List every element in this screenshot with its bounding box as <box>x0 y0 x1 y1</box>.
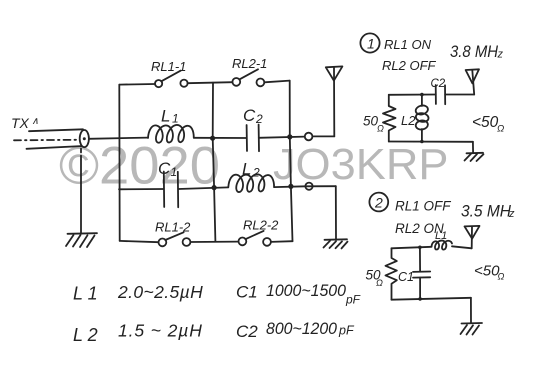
svg-text:1: 1 <box>367 35 375 51</box>
svg-text:pF: pF <box>345 293 361 307</box>
wire main bus left <box>89 138 148 139</box>
wire L2 to right <box>274 185 305 188</box>
svg-text:<50: <50 <box>474 263 500 280</box>
svg-text:L 2: L 2 <box>73 325 98 345</box>
svg-text:Ω: Ω <box>377 124 384 134</box>
inductor L2 (panel 1) <box>421 95 423 106</box>
wire lower rail seg2 <box>190 241 238 243</box>
node junction mid/main <box>210 136 215 141</box>
wire panel2 top <box>392 247 432 249</box>
wire panel2 to ground <box>470 298 472 323</box>
wire top rail seg3 <box>264 81 289 83</box>
svg-text:RL1-1: RL1-1 <box>151 59 186 74</box>
svg-text:C1: C1 <box>236 283 258 302</box>
svg-text:3.8 MH: 3.8 MH <box>450 42 499 61</box>
wire panel1 bottom <box>389 141 473 143</box>
svg-text:<50: <50 <box>472 114 499 131</box>
svg-text:z: z <box>508 208 515 220</box>
capacitor C1 <box>163 172 165 208</box>
wire top rail seg2 <box>188 82 233 83</box>
svg-text:Ω: Ω <box>498 272 505 282</box>
inductor L1 <box>148 125 194 143</box>
resistor 50 ohm (panel 2) <box>386 248 397 299</box>
node junction right/second <box>288 184 293 189</box>
svg-text:800~1200: 800~1200 <box>266 320 338 338</box>
wire lower rail seg3 <box>271 240 293 243</box>
capacitor C2 (panel 1) <box>435 85 437 104</box>
node panel2 C1 bottom <box>418 297 422 301</box>
svg-text:RL2-1: RL2-1 <box>232 56 267 71</box>
wire coax shield to ground <box>80 149 82 161</box>
antenna (panel 2) <box>465 226 480 239</box>
relay contact RL1-2 <box>159 232 191 246</box>
connector circle (antenna feed) <box>305 133 313 141</box>
node junction mid/second <box>212 185 217 190</box>
inductor L2 <box>228 174 274 192</box>
svg-text:L: L <box>242 160 251 179</box>
wire right rail <box>290 81 293 242</box>
svg-text:RL1-2: RL1-2 <box>155 220 191 235</box>
antenna (panel 1) <box>466 69 479 83</box>
node panel2 C1 top <box>418 246 422 250</box>
ground (panel 1) <box>467 152 484 155</box>
svg-text:1: 1 <box>172 112 179 126</box>
svg-text:RL2 OFF: RL2 OFF <box>382 58 437 73</box>
wire C2 to antenna node <box>259 137 305 138</box>
wire lower rail seg1 <box>120 241 159 242</box>
connector circle (second bus) <box>305 183 312 190</box>
relay contact RL2-1 <box>232 69 264 86</box>
wire second bus to ground drop <box>305 185 335 187</box>
svg-text:z: z <box>497 49 504 61</box>
node panel1 L2 bottom <box>420 140 424 144</box>
ground (coax shield) <box>68 232 98 235</box>
svg-text:3.5 MH: 3.5 MH <box>461 202 512 221</box>
svg-text:C: C <box>243 106 256 125</box>
wire top rail seg1 <box>119 83 155 86</box>
svg-text:RL1 ON: RL1 ON <box>384 37 432 52</box>
wire L1 to C2 <box>194 137 247 139</box>
wire panel2 bottom <box>392 298 471 300</box>
svg-text:L2: L2 <box>401 113 416 128</box>
ground (panel 2) <box>462 322 483 325</box>
svg-text:2: 2 <box>252 166 260 180</box>
relay contact RL1-1 <box>155 71 188 88</box>
svg-text:1.5 ~ 2µH: 1.5 ~ 2µH <box>118 321 203 341</box>
inductor L1 (panel 2) <box>432 241 453 250</box>
relay contact RL2-2 <box>239 231 271 246</box>
resistor 50 ohm (panel 1) <box>383 95 396 142</box>
svg-text:Ω: Ω <box>376 278 383 288</box>
svg-text:TX: TX <box>11 115 30 131</box>
svg-text:2: 2 <box>255 112 263 126</box>
wire C1 to L2 <box>178 187 228 189</box>
svg-text:2: 2 <box>374 194 383 210</box>
wire mid rail <box>213 83 216 242</box>
circled number 2 <box>369 193 388 212</box>
capacitor C2 <box>246 125 248 151</box>
svg-text:C: C <box>158 159 171 178</box>
svg-text:∧: ∧ <box>32 116 39 127</box>
svg-text:RL1 OFF: RL1 OFF <box>395 199 451 214</box>
svg-text:RL2-2: RL2-2 <box>243 218 279 233</box>
svg-text:C1: C1 <box>398 270 414 284</box>
wire left rail <box>118 85 120 241</box>
coax cable <box>29 129 83 131</box>
node panel1 L2 top <box>420 93 424 97</box>
svg-text:L: L <box>161 107 170 126</box>
svg-text:C2: C2 <box>431 78 446 90</box>
svg-text:2.0~2.5µH: 2.0~2.5µH <box>117 282 203 302</box>
circled number 1 <box>360 33 379 52</box>
svg-text:C2: C2 <box>236 322 258 341</box>
wire second bus seg1 <box>119 188 164 190</box>
svg-text:1000~1500: 1000~1500 <box>266 282 347 300</box>
svg-text:Ω: Ω <box>497 124 504 135</box>
node junction right/main <box>287 134 292 139</box>
svg-text:L 1: L 1 <box>73 284 98 304</box>
antenna (main) <box>326 66 343 80</box>
wire panel1 to ground <box>472 142 474 153</box>
capacitor C1 (panel 2) <box>419 247 421 271</box>
svg-text:pF: pF <box>338 324 355 338</box>
wire to right ground <box>335 186 337 239</box>
ground (main right) <box>325 238 348 241</box>
svg-text:1: 1 <box>171 165 178 179</box>
svg-text:JO3KRP: JO3KRP <box>273 140 449 189</box>
wire connector to antenna <box>313 135 335 137</box>
wire panel1 top <box>389 94 436 96</box>
